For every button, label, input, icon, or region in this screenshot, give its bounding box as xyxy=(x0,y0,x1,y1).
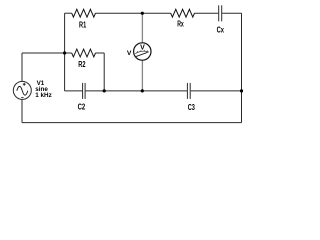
capacitor C2 xyxy=(83,83,86,99)
wire C2 to box corner xyxy=(86,90,105,92)
svg-text:Rx: Rx xyxy=(177,20,184,29)
junction voltmeter bottom node xyxy=(141,89,144,92)
wire middle bottom to voltmeter node xyxy=(104,90,142,92)
svg-text:C3: C3 xyxy=(188,103,196,112)
label V1 sine 1 kHz xyxy=(35,80,51,99)
wire middle vertical node A down xyxy=(64,13,66,91)
voltmeter U1 xyxy=(134,43,151,60)
capacitor C3 xyxy=(187,83,190,99)
wire left vertical below V1 xyxy=(21,100,23,123)
wire top from Cx to right corner xyxy=(222,12,241,14)
junction box right bottom node xyxy=(103,89,106,92)
junction top voltmeter node xyxy=(141,12,144,15)
wire voltmeter top gray xyxy=(141,13,143,43)
wire left vertical above V1 xyxy=(21,53,23,81)
svg-text:1 kHz: 1 kHz xyxy=(35,92,51,99)
wire right side of R2/C2 box xyxy=(103,53,105,91)
capacitor Cx xyxy=(219,5,222,21)
junction right bottom node xyxy=(240,89,243,92)
svg-text:R2: R2 xyxy=(78,60,86,69)
wire voltmeter node to C3 xyxy=(142,90,187,92)
wire top from voltmeter node to Rx xyxy=(142,12,170,14)
wire C2 lead left xyxy=(65,90,83,92)
wire from V1 to middle node xyxy=(22,52,65,54)
wire top from node A to R1 xyxy=(65,12,72,14)
resistor R2 xyxy=(72,49,96,57)
junction middle left node xyxy=(63,51,66,54)
wire voltmeter bottom gray xyxy=(141,60,143,91)
wire R2 lead right xyxy=(96,52,105,54)
source V1 xyxy=(13,81,31,99)
wire bottom xyxy=(22,122,242,124)
svg-text:Cx: Cx xyxy=(217,26,225,35)
resistor R1 xyxy=(72,9,96,17)
svg-text:R1: R1 xyxy=(79,21,87,30)
svg-text:C2: C2 xyxy=(78,103,86,112)
svg-text:V: V xyxy=(127,50,132,57)
wire R2 lead left xyxy=(65,52,72,54)
wire top from R1 to voltmeter node xyxy=(96,12,143,14)
resistor Rx xyxy=(171,9,195,17)
wire C3 to right vertical xyxy=(191,90,242,92)
wire right vertical xyxy=(241,13,243,122)
wire top from Rx to Cx xyxy=(195,12,219,14)
